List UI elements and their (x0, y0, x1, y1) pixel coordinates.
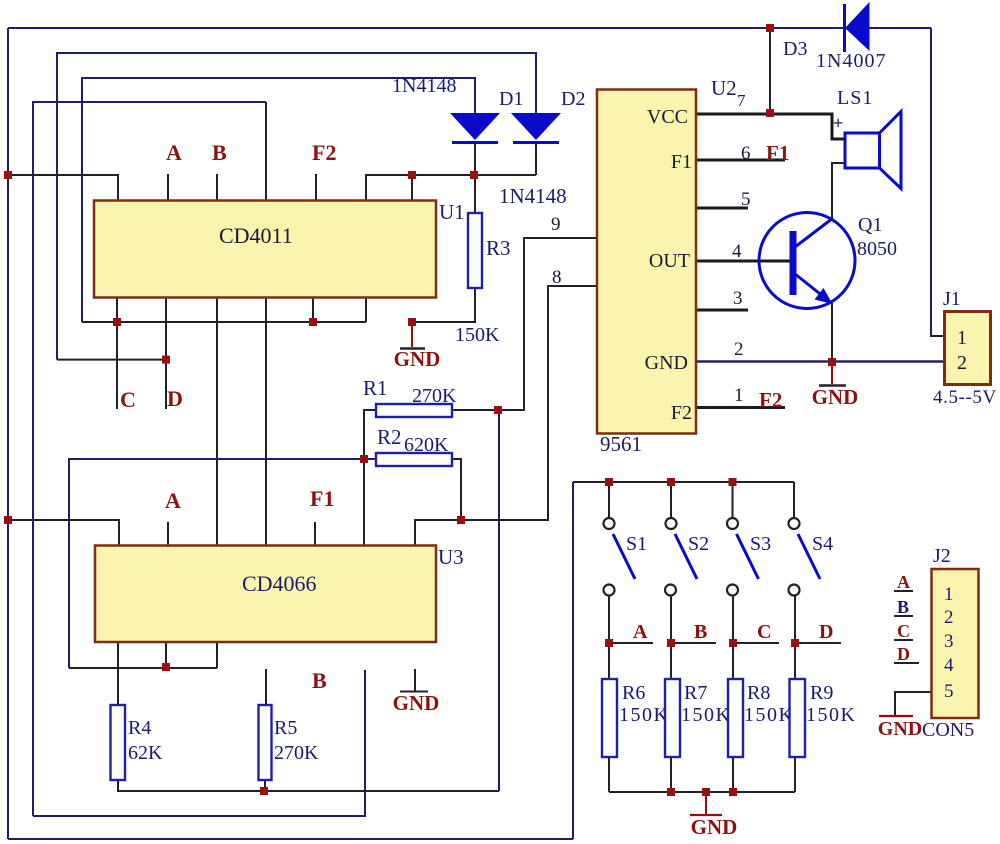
svg-text:CD4066: CD4066 (242, 571, 317, 596)
resistor R4 (111, 705, 126, 780)
svg-text:F1: F1 (671, 151, 692, 173)
svg-text:R4: R4 (128, 717, 151, 739)
svg-text:S1: S1 (626, 533, 647, 555)
wire U1 top pin x412 (411, 175, 413, 201)
svg-text:6: 6 (741, 143, 751, 164)
svg-text:GND: GND (878, 718, 922, 740)
wire R1 R2 left to U3 pin (364, 410, 376, 546)
svg-text:9561: 9561 (600, 432, 642, 456)
wire U2 pin9 to R1 (452, 238, 597, 410)
svg-text:C: C (757, 621, 771, 643)
svg-text:S4: S4 (812, 533, 833, 555)
wire R5 top stub (265, 669, 267, 705)
wire S3 lower to R8 (732, 596, 734, 679)
wire net B stub (671, 642, 716, 644)
wire U2 pin4 to Q1 base (696, 260, 790, 263)
resistor R6 (602, 679, 617, 757)
wire net C horizontal (82, 321, 366, 323)
svg-text:3: 3 (944, 631, 954, 652)
svg-text:7: 7 (737, 91, 746, 110)
speaker LS1 (833, 112, 901, 189)
svg-text:9: 9 (551, 214, 561, 235)
wire U2 pin3 (696, 309, 748, 312)
svg-text:F2: F2 (312, 140, 336, 165)
wire x573 to switch rail (572, 482, 574, 839)
label R6 (619, 682, 669, 726)
wire S2 lower to R7 (670, 596, 672, 679)
svg-text:D2: D2 (561, 88, 585, 110)
wire R3 top (474, 175, 476, 213)
svg-text:4.5--5V: 4.5--5V (933, 387, 997, 408)
wire R1 junction to R4 R5 rail (498, 410, 500, 791)
svg-text:2: 2 (944, 607, 954, 628)
svg-text:S3: S3 (750, 533, 771, 555)
wire S2 upper (670, 482, 672, 518)
junction x498 y410 (494, 406, 502, 414)
label U2 (711, 76, 746, 110)
resistor R7 (665, 679, 680, 757)
label R8 (744, 682, 794, 726)
wire net C stub (733, 642, 779, 644)
diode D1 (450, 113, 500, 143)
svg-text:C: C (897, 621, 910, 641)
wire U3 top pin to left rail (8, 520, 119, 546)
junction GND rail (702, 788, 710, 796)
wire R7 bottom (670, 757, 672, 792)
svg-text:GND: GND (394, 347, 441, 371)
wire loop D1 anode (82, 78, 475, 322)
wire J1 pin1 stub (931, 335, 944, 337)
junction S1 rail (605, 478, 613, 486)
wire U1 bottom pin x313 (312, 297, 314, 322)
svg-text:150K: 150K (744, 704, 794, 726)
junction x117 y322 (113, 318, 121, 326)
wire U2 pin8 to U3 pin (415, 286, 597, 546)
label D bar J2 (894, 644, 919, 664)
wire loop x33 (33, 102, 266, 816)
junction x412 y175 (408, 171, 416, 179)
svg-text:R2: R2 (377, 425, 402, 449)
svg-text:GND: GND (645, 352, 688, 374)
svg-text:8: 8 (552, 267, 562, 288)
switch S2 (665, 518, 697, 596)
svg-text:150K: 150K (619, 704, 669, 726)
junction x166 y359 (162, 356, 170, 364)
wire net D horizontal (57, 359, 170, 361)
junction x166 y667 (162, 663, 170, 671)
transistor Q1 (759, 213, 855, 309)
junction R8 bottom (729, 788, 737, 796)
svg-text:3: 3 (733, 288, 743, 309)
svg-text:2: 2 (957, 352, 967, 374)
wire U1 bottom pin net C (116, 297, 118, 409)
junction left rail y520 (4, 516, 12, 524)
wire left rail (7, 28, 9, 839)
wire right rail to J1 pin1 (931, 28, 944, 336)
wire resistor bottom rail (609, 791, 795, 793)
resistor R3 (468, 213, 482, 288)
wire U1 top pin A stub (167, 174, 169, 201)
svg-text:GND: GND (393, 691, 440, 715)
svg-text:R5: R5 (274, 717, 297, 739)
wire VCC drop from top rail (769, 28, 771, 113)
svg-text:D: D (167, 386, 183, 411)
svg-text:R9: R9 (810, 682, 833, 704)
wire top rail (8, 27, 931, 29)
svg-text:D: D (897, 644, 910, 664)
svg-text:CON5: CON5 (922, 719, 974, 741)
svg-text:270K: 270K (412, 385, 457, 407)
junction net D (791, 639, 799, 647)
svg-text:Q1: Q1 (858, 214, 882, 236)
wire loop D2 anode (57, 53, 536, 360)
wire R4 R5 bottom rail (118, 780, 499, 791)
wire speaker minus to Q1 collector (832, 163, 845, 218)
wire U3 bottom pin x217 (216, 642, 218, 668)
wire R3 bottom to GND junction (412, 288, 475, 322)
svg-text:J2: J2 (933, 545, 951, 567)
ground J2 (878, 716, 922, 740)
svg-text:4: 4 (732, 241, 742, 262)
wire U1 pin x266 to U3 (265, 297, 267, 546)
junction R7 bottom (667, 788, 675, 796)
wire R2 left rail to U3 bottom (69, 459, 376, 668)
junction x264 y791 (260, 787, 268, 795)
svg-text:B: B (312, 668, 327, 693)
label B bar J2 (894, 597, 913, 617)
junction left rail y175 (4, 171, 12, 179)
wire U1 top pin x266 (265, 102, 267, 201)
svg-text:J1: J1 (943, 288, 961, 310)
IC U1 CD4011 (94, 201, 436, 298)
svg-text:B: B (212, 140, 227, 165)
resistor R5 (259, 705, 272, 780)
svg-text:4: 4 (944, 655, 954, 676)
svg-text:5: 5 (944, 681, 954, 702)
svg-text:R8: R8 (747, 682, 770, 704)
label R7 (681, 682, 731, 726)
junction x770 y28 (766, 24, 774, 32)
wire y816 bottom loop (33, 670, 365, 816)
wire U3 pin x118 to R4 (117, 642, 119, 705)
label A bar J2 (894, 572, 913, 592)
label C bar J2 (894, 621, 913, 641)
wire R2 right (452, 459, 461, 520)
diode D3 (845, 2, 870, 52)
wire U1 pin to left rail (8, 175, 118, 201)
junction net B (667, 639, 675, 647)
junction S3 rail (729, 478, 737, 486)
svg-text:A: A (165, 488, 181, 513)
wire U3 top pin A stub (167, 522, 169, 546)
svg-text:1N4148: 1N4148 (392, 75, 456, 97)
ground below R3 (394, 322, 441, 371)
svg-text:U3: U3 (438, 545, 464, 569)
svg-text:B: B (694, 621, 707, 643)
svg-text:F1: F1 (766, 141, 789, 165)
wire R8 bottom (732, 757, 734, 792)
wire U2 pin2 GND line to J1 pin2 (696, 360, 944, 363)
label R9 (806, 682, 856, 726)
svg-text:A: A (897, 572, 910, 592)
junction x412 y322 (408, 318, 416, 326)
svg-text:R1: R1 (363, 376, 388, 400)
wire switch top rail (573, 481, 794, 483)
label Q1 (857, 214, 897, 260)
svg-text:150K: 150K (455, 324, 500, 346)
wire U1 bottom pin x366 (365, 297, 367, 322)
svg-text:62K: 62K (128, 742, 163, 764)
wire bottom frame (8, 838, 573, 840)
junction S2 rail (667, 478, 675, 486)
svg-text:R6: R6 (622, 682, 645, 704)
svg-text:A: A (633, 621, 648, 643)
resistor R9 (790, 679, 806, 757)
svg-text:1N4007: 1N4007 (816, 50, 886, 72)
wire S4 upper (793, 482, 795, 518)
svg-text:F1: F1 (310, 486, 334, 511)
ground below Q1 (812, 362, 859, 409)
wire U1 top pin B stub (216, 174, 218, 201)
svg-text:LS1: LS1 (837, 87, 873, 109)
svg-text:150K: 150K (681, 704, 731, 726)
svg-text:8050: 8050 (857, 238, 897, 260)
junction x832 y362 (828, 358, 836, 366)
wire R9 bottom (794, 757, 796, 792)
junction x474 y175 (470, 171, 478, 179)
ground bottom rail (690, 792, 737, 839)
junction net A (605, 639, 613, 647)
wire net A stub (609, 642, 653, 644)
svg-text:R7: R7 (684, 682, 707, 704)
wire U3 top pin F1 stub (314, 522, 316, 546)
junction x461 y520 (457, 516, 465, 524)
wire net D stub (795, 642, 841, 644)
svg-text:1: 1 (957, 327, 967, 349)
junction x313 y322 (309, 318, 317, 326)
wire y175 segment to D1 D2 (366, 175, 536, 201)
wire U2 pin5 (696, 207, 748, 210)
svg-text:+: + (833, 113, 843, 133)
switch S3 (727, 518, 759, 596)
wire U3 bottom rail (69, 667, 217, 669)
junction net C (729, 639, 737, 647)
svg-text:5: 5 (741, 189, 751, 210)
wire S1 lower to R6 (608, 596, 610, 679)
svg-text:S2: S2 (688, 533, 709, 555)
svg-text:R3: R3 (486, 236, 511, 260)
svg-text:1: 1 (944, 584, 954, 605)
connector J2 (932, 569, 979, 718)
wire Q1 emitter down (831, 303, 833, 362)
svg-text:F2: F2 (671, 402, 692, 424)
wire R5 bottom (264, 780, 266, 791)
resistor R8 (728, 679, 743, 757)
wire J2 pin5 to GND (895, 692, 944, 717)
resistor R2 (376, 453, 452, 466)
wire S4 lower to R9 (794, 596, 796, 679)
wire U2 pin1 (696, 406, 785, 409)
switch S1 (604, 518, 636, 596)
wire VCC line U2 pin7 to speaker (696, 114, 845, 139)
svg-text:2: 2 (734, 339, 744, 360)
wire U1 bottom pin net D (165, 297, 167, 409)
svg-text:1N4148: 1N4148 (499, 184, 567, 208)
svg-text:D: D (819, 621, 833, 643)
svg-text:A: A (166, 140, 182, 165)
resistor R1 (376, 404, 452, 417)
svg-text:GND: GND (691, 815, 738, 839)
IC U3 CD4066 (95, 546, 436, 643)
wire U2 pin6 (696, 159, 785, 162)
svg-text:CD4011: CD4011 (219, 223, 293, 248)
svg-text:B: B (897, 597, 909, 617)
wire S1 upper (608, 482, 610, 518)
svg-text:150K: 150K (806, 704, 856, 726)
svg-text:F2: F2 (759, 388, 782, 412)
svg-text:270K: 270K (274, 742, 319, 764)
svg-text:D3: D3 (783, 38, 807, 60)
junction x364 y459 (360, 455, 368, 463)
IC U2 9561 (597, 90, 696, 434)
wire D2 cathode to y175 (535, 143, 537, 175)
label R5 (274, 717, 319, 764)
wire U1 top pin F2 stub (315, 174, 317, 201)
svg-text:VCC: VCC (647, 106, 688, 128)
svg-text:1: 1 (734, 385, 744, 406)
diode D2 (511, 113, 561, 143)
ground right of R5 (393, 669, 440, 715)
svg-text:U2: U2 (711, 76, 737, 100)
svg-text:GND: GND (812, 385, 859, 409)
connector J1 (945, 312, 991, 385)
wire D1 cathode to junction (474, 143, 476, 175)
svg-text:C: C (120, 387, 136, 412)
junction x770 y113 (766, 109, 774, 117)
wire U1 pin x217 to U3 (216, 297, 218, 546)
wire U3 bottom pin x166 (165, 642, 167, 668)
wire R6 bottom (608, 757, 610, 792)
switch S4 (789, 518, 821, 596)
svg-text:620K: 620K (404, 434, 449, 456)
svg-text:U1: U1 (439, 200, 465, 224)
label R4 (128, 717, 163, 764)
wire S3 upper (732, 482, 734, 518)
svg-text:OUT: OUT (649, 250, 690, 272)
svg-text:D1: D1 (499, 88, 523, 110)
